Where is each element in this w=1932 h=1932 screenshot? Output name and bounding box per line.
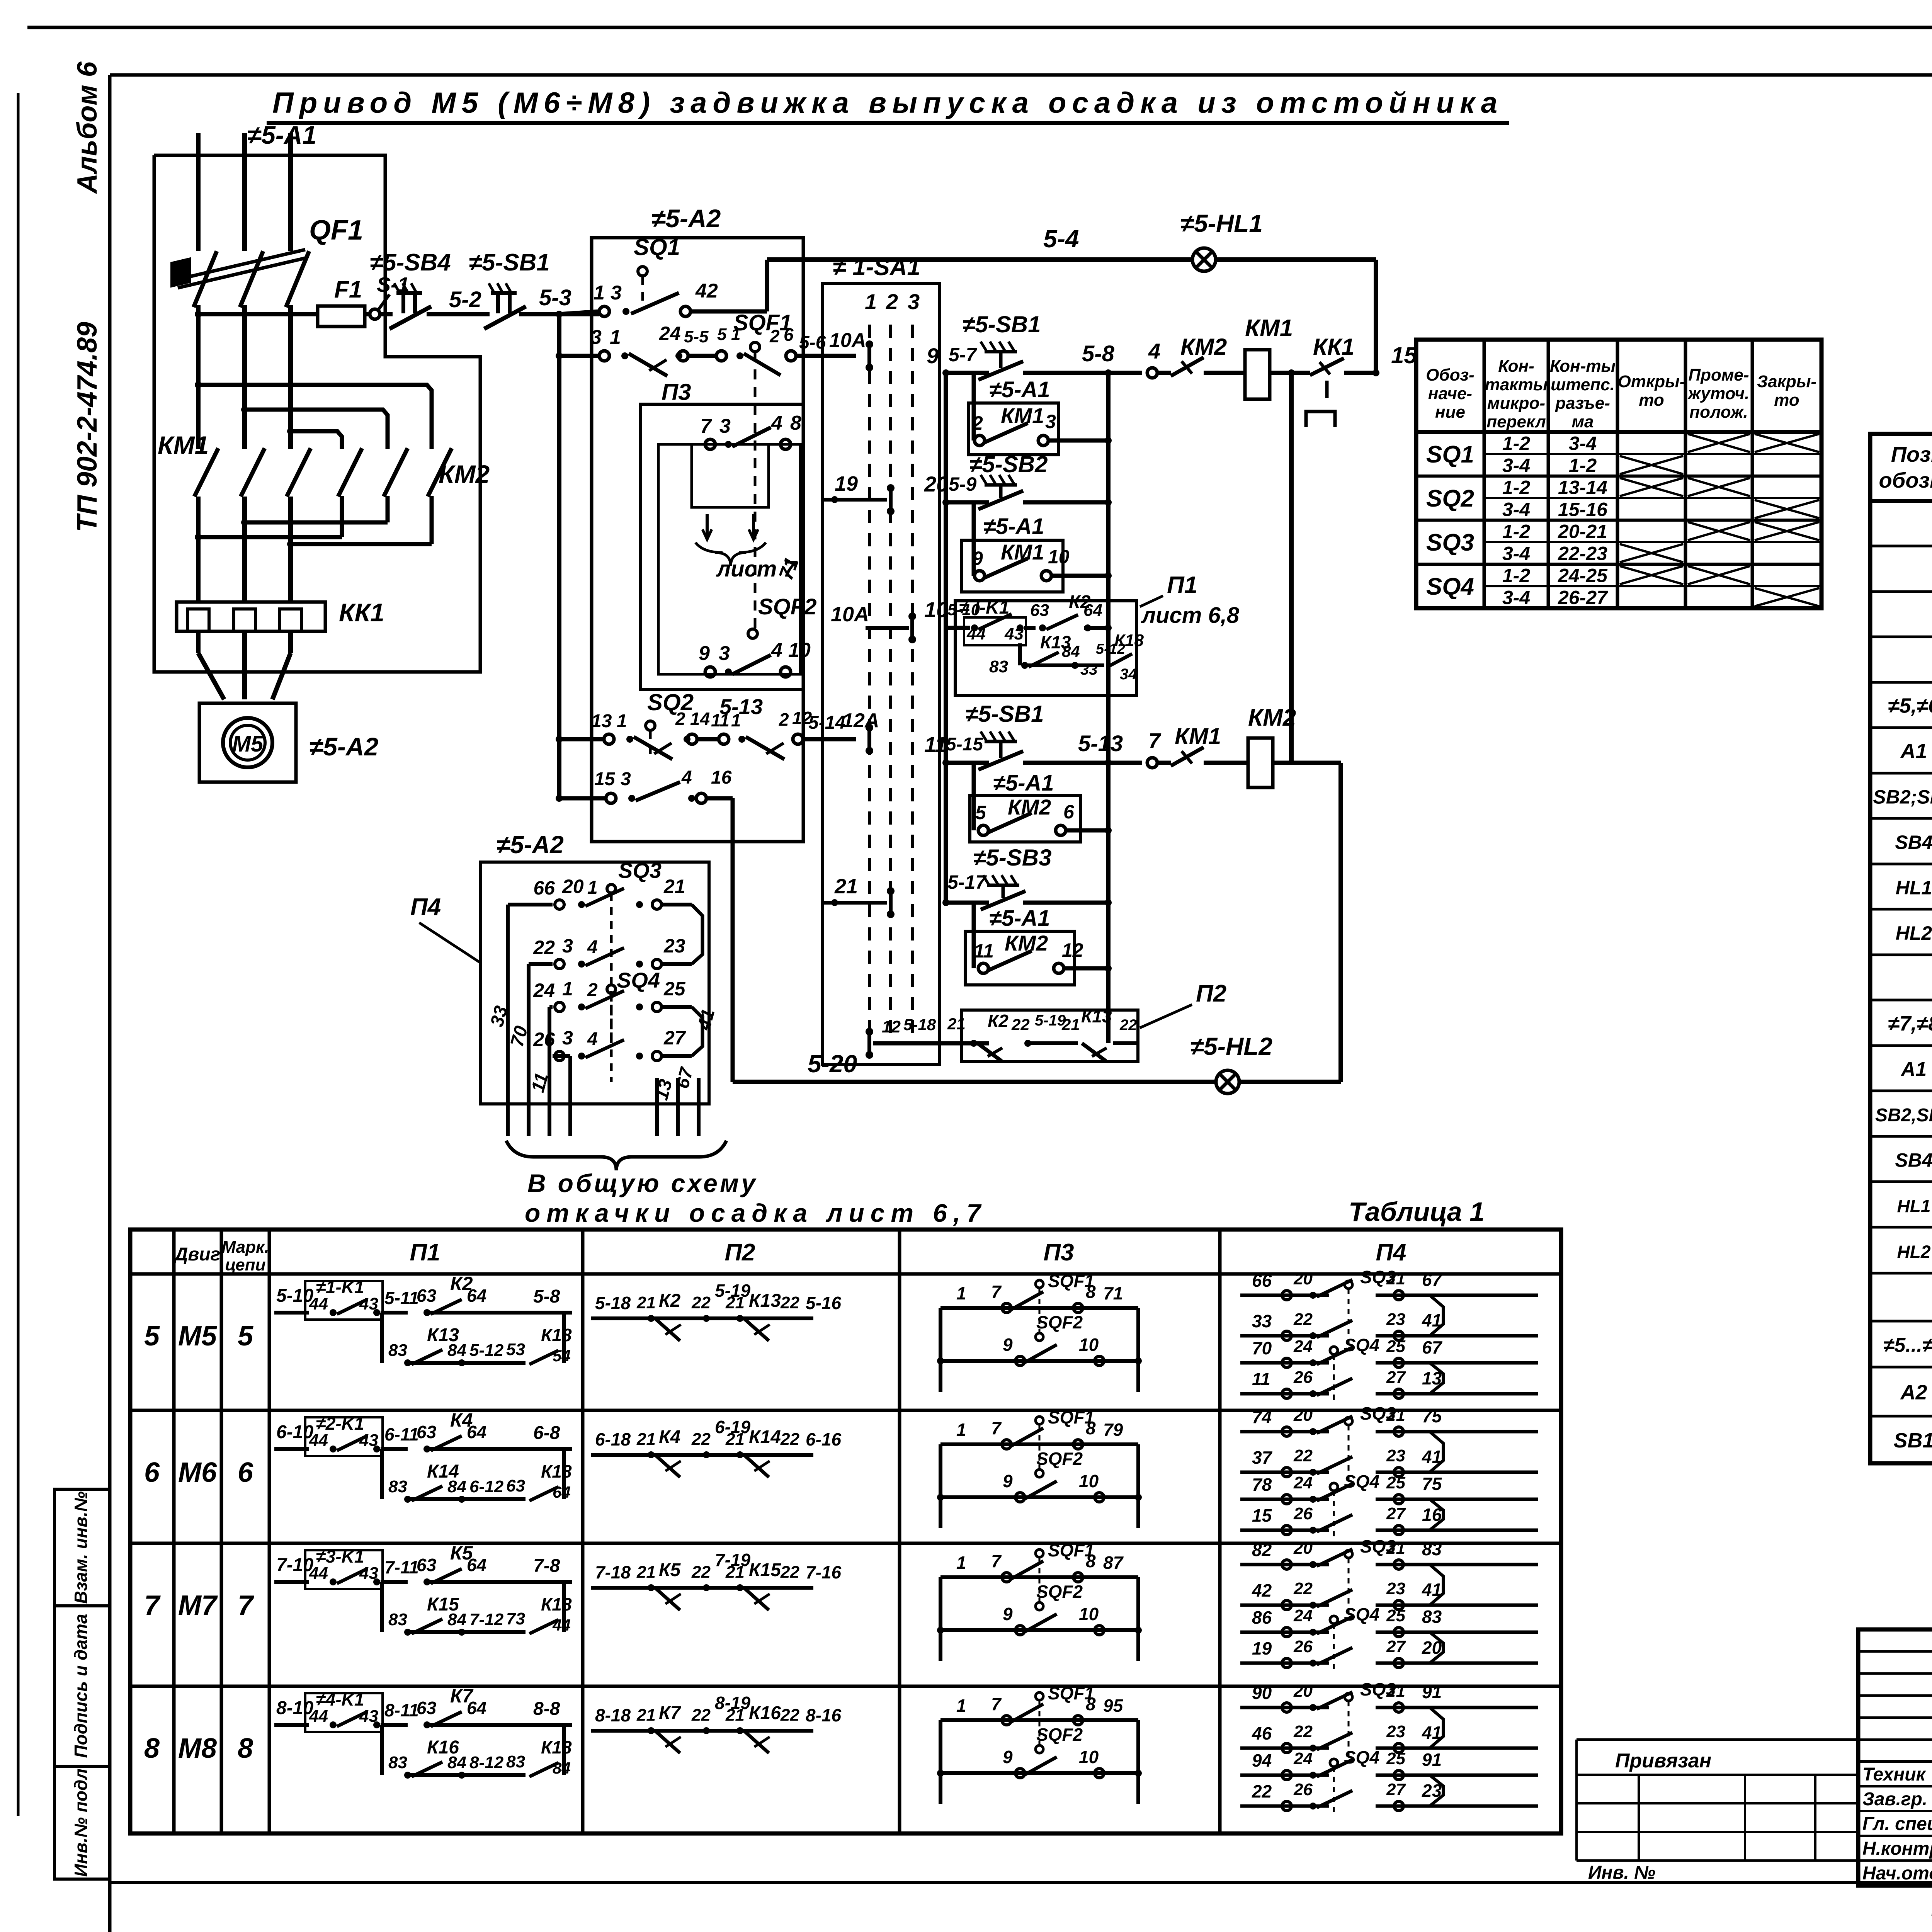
- svg-text:КМ2: КМ2: [1005, 931, 1048, 955]
- svg-text:≠5-A1: ≠5-A1: [247, 121, 316, 149]
- svg-text:20: 20: [1293, 1539, 1313, 1558]
- svg-text:74: 74: [1252, 1407, 1272, 1427]
- svg-text:12А: 12А: [842, 709, 879, 732]
- svg-text:66: 66: [1252, 1270, 1272, 1291]
- svg-text:то: то: [1774, 391, 1799, 410]
- svg-text:4: 4: [771, 412, 782, 434]
- svg-text:≠5-SB2: ≠5-SB2: [969, 451, 1048, 477]
- svg-text:33: 33: [1252, 1311, 1272, 1331]
- svg-text:83: 83: [388, 1341, 407, 1360]
- svg-text:ма: ма: [1571, 412, 1594, 431]
- svg-text:24: 24: [1293, 1606, 1313, 1625]
- svg-text:К15: К15: [749, 1560, 781, 1580]
- svg-text:Марк.: Марк.: [221, 1238, 269, 1257]
- svg-text:67: 67: [1422, 1270, 1443, 1290]
- svg-text:44: 44: [309, 1294, 328, 1313]
- svg-text:64: 64: [467, 1422, 486, 1442]
- svg-text:7-10: 7-10: [276, 1555, 313, 1575]
- svg-text:90: 90: [1252, 1683, 1272, 1703]
- svg-text:26: 26: [1293, 1780, 1313, 1799]
- svg-text:К18: К18: [541, 1594, 572, 1614]
- svg-text:Зав.гр.: Зав.гр.: [1862, 1789, 1927, 1810]
- svg-text:SB2;SB3: SB2;SB3: [1873, 786, 1932, 808]
- svg-text:22: 22: [691, 1563, 711, 1582]
- svg-text:20: 20: [1293, 1682, 1313, 1701]
- svg-text:7-18: 7-18: [595, 1562, 631, 1582]
- svg-text:П4: П4: [1376, 1239, 1406, 1266]
- svg-text:20: 20: [1293, 1406, 1313, 1425]
- svg-text:Инв. №: Инв. №: [1588, 1862, 1655, 1883]
- svg-text:6-12: 6-12: [469, 1477, 504, 1496]
- svg-text:9: 9: [699, 642, 710, 665]
- svg-text:≠5-HL1: ≠5-HL1: [1180, 209, 1263, 237]
- svg-text:54: 54: [553, 1347, 571, 1365]
- svg-text:1: 1: [956, 1283, 966, 1303]
- svg-text:Альбом 6: Альбом 6: [72, 61, 103, 194]
- svg-text:44: 44: [966, 624, 986, 643]
- svg-text:5-10: 5-10: [276, 1286, 313, 1306]
- svg-text:63: 63: [506, 1476, 525, 1495]
- svg-text:Н.контр.: Н.контр.: [1862, 1838, 1932, 1859]
- svg-text:37: 37: [1252, 1447, 1273, 1468]
- svg-text:82: 82: [1252, 1540, 1272, 1560]
- svg-text:5-4: 5-4: [1043, 225, 1079, 253]
- svg-text:SQF2: SQF2: [1036, 1449, 1083, 1469]
- svg-text:Кон-ты: Кон-ты: [1550, 357, 1616, 376]
- svg-text:лист 6,8: лист 6,8: [1141, 603, 1240, 628]
- svg-text:HL1: HL1: [1897, 1196, 1931, 1216]
- svg-text:КК1: КК1: [1313, 334, 1354, 360]
- svg-text:2: 2: [886, 289, 898, 314]
- svg-text:такты: такты: [1485, 375, 1548, 394]
- svg-text:84: 84: [447, 1753, 466, 1772]
- svg-text:3: 3: [621, 769, 631, 789]
- svg-text:микро-: микро-: [1487, 394, 1545, 413]
- svg-text:8: 8: [790, 412, 801, 434]
- svg-text:11: 11: [711, 710, 730, 730]
- svg-text:25: 25: [1386, 1473, 1405, 1492]
- svg-text:П3: П3: [1043, 1239, 1074, 1266]
- svg-text:22: 22: [1119, 1017, 1137, 1034]
- svg-text:15: 15: [1391, 342, 1417, 368]
- svg-text:44: 44: [552, 1616, 571, 1634]
- svg-text:2: 2: [769, 326, 780, 346]
- svg-text:А2: А2: [1900, 1381, 1927, 1404]
- svg-text:84: 84: [1062, 642, 1080, 660]
- svg-text:21: 21: [834, 875, 858, 898]
- svg-text:10: 10: [1079, 1335, 1099, 1355]
- svg-text:5-7: 5-7: [949, 344, 977, 366]
- svg-text:11: 11: [1252, 1369, 1270, 1389]
- svg-text:6: 6: [238, 1457, 253, 1488]
- svg-text:SB1: SB1: [1893, 1429, 1932, 1452]
- svg-text:Привязан: Привязан: [1615, 1750, 1711, 1772]
- svg-text:22: 22: [691, 1430, 711, 1449]
- svg-text:Двиг: Двиг: [173, 1244, 221, 1265]
- svg-text:86: 86: [1252, 1607, 1272, 1628]
- svg-text:Закры-: Закры-: [1757, 372, 1816, 391]
- svg-text:SQ4: SQ4: [1426, 573, 1474, 600]
- svg-text:8: 8: [1086, 1694, 1096, 1714]
- svg-text:23: 23: [1386, 1446, 1405, 1465]
- svg-text:15-16: 15-16: [1558, 499, 1608, 520]
- svg-text:12: 12: [1062, 939, 1083, 961]
- svg-text:21: 21: [725, 1563, 745, 1582]
- svg-text:КМ2: КМ2: [1180, 334, 1227, 360]
- svg-text:22: 22: [780, 1563, 799, 1582]
- svg-text:83: 83: [1422, 1539, 1442, 1559]
- svg-text:КМ2: КМ2: [1248, 704, 1296, 731]
- svg-text:≠5-SB1: ≠5-SB1: [963, 311, 1041, 337]
- svg-text:71: 71: [1103, 1283, 1123, 1303]
- svg-text:7-16: 7-16: [806, 1562, 841, 1582]
- svg-text:1: 1: [956, 1420, 966, 1440]
- svg-text:3: 3: [1045, 411, 1056, 432]
- svg-text:15: 15: [1252, 1505, 1272, 1526]
- svg-text:Откры-: Откры-: [1618, 372, 1685, 391]
- svg-text:19: 19: [1252, 1638, 1272, 1658]
- svg-text:3: 3: [562, 1027, 573, 1049]
- svg-text:22: 22: [780, 1293, 799, 1312]
- svg-text:84: 84: [447, 1341, 466, 1360]
- svg-text:5-17: 5-17: [947, 871, 987, 893]
- svg-text:20-21: 20-21: [1558, 521, 1607, 543]
- svg-text:Поз.: Поз.: [1891, 442, 1932, 466]
- svg-text:94: 94: [1252, 1750, 1272, 1770]
- svg-text:24: 24: [1293, 1749, 1313, 1768]
- svg-text:А1: А1: [1900, 740, 1927, 763]
- svg-text:9: 9: [927, 344, 939, 368]
- svg-text:87: 87: [1103, 1553, 1124, 1573]
- svg-text:SB2,SB3: SB2,SB3: [1875, 1105, 1932, 1126]
- svg-text:24: 24: [1293, 1337, 1313, 1356]
- svg-text:М6: М6: [178, 1457, 217, 1488]
- svg-text:П1: П1: [1167, 572, 1197, 599]
- svg-text:КМ1: КМ1: [1245, 315, 1293, 342]
- svg-text:5-3: 5-3: [539, 285, 571, 310]
- svg-text:1: 1: [617, 711, 627, 731]
- svg-text:22: 22: [1293, 1446, 1313, 1465]
- svg-text:5-12: 5-12: [469, 1341, 504, 1360]
- svg-text:27: 27: [1386, 1368, 1406, 1387]
- svg-text:Инв.№ подл: Инв.№ подл: [71, 1769, 91, 1877]
- svg-text:9: 9: [1003, 1471, 1013, 1491]
- svg-text:8: 8: [238, 1733, 253, 1764]
- svg-text:SQ2: SQ2: [1426, 485, 1474, 512]
- svg-text:≠5-HL2: ≠5-HL2: [1190, 1032, 1272, 1060]
- svg-text:22: 22: [780, 1430, 799, 1449]
- svg-text:3: 3: [562, 935, 573, 957]
- svg-text:84: 84: [447, 1610, 466, 1629]
- svg-text:≠5-A1: ≠5-A1: [989, 377, 1050, 402]
- svg-text:3-4: 3-4: [1502, 499, 1530, 520]
- svg-text:К14: К14: [749, 1427, 781, 1447]
- svg-text:SQ3: SQ3: [618, 858, 662, 883]
- svg-text:22: 22: [691, 1706, 711, 1725]
- svg-text:9: 9: [1003, 1604, 1013, 1624]
- svg-text:1: 1: [562, 978, 573, 1000]
- svg-text:цепи: цепи: [225, 1255, 266, 1274]
- svg-text:3-4: 3-4: [1502, 587, 1530, 609]
- svg-text:20: 20: [562, 876, 584, 897]
- svg-text:63: 63: [417, 1698, 437, 1718]
- svg-text:13: 13: [591, 711, 612, 731]
- svg-text:ние: ние: [1435, 403, 1465, 422]
- svg-text:95: 95: [1103, 1696, 1124, 1716]
- svg-text:SQF2: SQF2: [1036, 1582, 1083, 1602]
- svg-text:84: 84: [553, 1759, 571, 1777]
- svg-text:6-11: 6-11: [384, 1424, 419, 1444]
- svg-text:10: 10: [1079, 1747, 1099, 1767]
- svg-text:полож.: полож.: [1689, 403, 1748, 422]
- svg-text:63: 63: [1030, 601, 1049, 620]
- svg-text:SB4: SB4: [1895, 832, 1932, 853]
- svg-text:19: 19: [835, 472, 858, 495]
- svg-text:20: 20: [924, 472, 948, 496]
- svg-text:75: 75: [1422, 1406, 1442, 1426]
- svg-text:21: 21: [947, 1015, 966, 1033]
- svg-text:25: 25: [1386, 1749, 1405, 1768]
- svg-text:5: 5: [975, 802, 986, 823]
- svg-text:ТП 902-2-474.89: ТП 902-2-474.89: [72, 322, 103, 532]
- svg-text:21: 21: [725, 1430, 745, 1449]
- svg-text:83: 83: [506, 1752, 525, 1771]
- svg-text:7: 7: [991, 1694, 1002, 1714]
- svg-text:9: 9: [1003, 1335, 1013, 1355]
- svg-text:83: 83: [388, 1610, 407, 1629]
- svg-text:43: 43: [1004, 624, 1024, 643]
- svg-text:жуточ.: жуточ.: [1687, 384, 1750, 403]
- svg-text:8-12: 8-12: [469, 1753, 504, 1772]
- svg-text:25: 25: [663, 978, 686, 1000]
- svg-text:26: 26: [533, 1029, 555, 1050]
- svg-text:27: 27: [1386, 1780, 1406, 1799]
- svg-text:64: 64: [467, 1698, 486, 1718]
- svg-text:22: 22: [1011, 1015, 1030, 1034]
- svg-text:К13: К13: [1081, 1006, 1112, 1026]
- svg-text:25: 25: [1386, 1337, 1405, 1356]
- svg-text:8-18: 8-18: [595, 1705, 631, 1725]
- svg-text:5-8: 5-8: [533, 1286, 560, 1307]
- svg-text:3: 3: [908, 289, 920, 314]
- svg-text:К18: К18: [1114, 631, 1144, 650]
- svg-text:К18: К18: [541, 1461, 572, 1481]
- svg-text:53: 53: [506, 1340, 525, 1359]
- svg-text:Техник: Техник: [1862, 1764, 1927, 1785]
- svg-text:15: 15: [594, 769, 616, 789]
- svg-text:7: 7: [700, 415, 712, 437]
- svg-text:6-18: 6-18: [595, 1429, 631, 1449]
- svg-text:26-27: 26-27: [1558, 587, 1608, 609]
- svg-text:SQ4: SQ4: [1344, 1747, 1379, 1767]
- svg-text:8: 8: [1086, 1282, 1096, 1302]
- svg-text:27: 27: [1386, 1504, 1406, 1523]
- svg-text:75: 75: [1422, 1474, 1442, 1494]
- svg-text:7-11: 7-11: [384, 1557, 419, 1577]
- svg-text:5-16: 5-16: [806, 1293, 841, 1313]
- svg-text:1: 1: [956, 1696, 966, 1716]
- svg-text:М5: М5: [232, 731, 264, 757]
- svg-text:9: 9: [1003, 1747, 1013, 1767]
- svg-text:21: 21: [1061, 1015, 1080, 1034]
- svg-text:16: 16: [711, 767, 732, 788]
- svg-text:М7: М7: [178, 1590, 218, 1621]
- svg-text:1-2: 1-2: [1569, 455, 1597, 476]
- svg-text:21: 21: [636, 1430, 656, 1449]
- svg-text:79: 79: [1103, 1420, 1123, 1440]
- svg-text:14: 14: [690, 709, 710, 729]
- svg-text:≠5-A1: ≠5-A1: [983, 514, 1044, 539]
- svg-text:≠5-SB4: ≠5-SB4: [370, 249, 451, 276]
- svg-text:26: 26: [1293, 1504, 1313, 1523]
- svg-text:46: 46: [1252, 1723, 1272, 1743]
- svg-text:22: 22: [1293, 1722, 1313, 1741]
- svg-text:83: 83: [388, 1477, 407, 1496]
- svg-text:наче-: наче-: [1428, 384, 1472, 403]
- svg-text:HL1: HL1: [1896, 877, 1932, 899]
- svg-text:Нач.отд.: Нач.отд.: [1862, 1863, 1932, 1884]
- svg-text:26: 26: [1293, 1637, 1313, 1656]
- svg-text:91: 91: [1422, 1750, 1442, 1770]
- svg-text:SB4: SB4: [1895, 1150, 1932, 1171]
- svg-text:Взам. инв.№: Взам. инв.№: [71, 1491, 91, 1604]
- svg-text:2: 2: [972, 412, 983, 434]
- svg-text:66: 66: [533, 877, 555, 899]
- svg-text:64: 64: [467, 1555, 486, 1575]
- svg-text:21: 21: [663, 876, 685, 897]
- svg-text:7: 7: [991, 1282, 1002, 1302]
- svg-text:5-11: 5-11: [384, 1288, 419, 1308]
- svg-text:26: 26: [1293, 1368, 1313, 1387]
- svg-text:≠5-SB1: ≠5-SB1: [966, 701, 1044, 727]
- svg-text:8-11: 8-11: [384, 1700, 419, 1720]
- svg-text:К13: К13: [749, 1291, 781, 1311]
- svg-text:4: 4: [771, 639, 782, 662]
- svg-text:2: 2: [779, 709, 789, 730]
- svg-text:4: 4: [1148, 339, 1160, 363]
- svg-text:24: 24: [1293, 1473, 1313, 1492]
- svg-text:≠5-SB1: ≠5-SB1: [469, 249, 550, 276]
- svg-text:1: 1: [956, 1553, 966, 1573]
- svg-text:SQ4: SQ4: [1344, 1471, 1379, 1492]
- svg-text:SQ4: SQ4: [1344, 1335, 1379, 1355]
- svg-text:27: 27: [663, 1027, 686, 1049]
- svg-text:83: 83: [1422, 1607, 1442, 1627]
- svg-text:SQ1: SQ1: [1426, 441, 1474, 468]
- svg-text:1: 1: [731, 710, 741, 730]
- svg-text:6: 6: [1063, 801, 1075, 823]
- svg-text:8: 8: [1086, 1418, 1096, 1438]
- svg-text:6: 6: [784, 325, 794, 345]
- svg-text:27: 27: [1386, 1637, 1406, 1656]
- svg-text:≠5-A1: ≠5-A1: [993, 770, 1054, 796]
- svg-text:8-10: 8-10: [276, 1698, 313, 1718]
- svg-text:8-16: 8-16: [806, 1705, 841, 1725]
- svg-text:разъе-: разъе-: [1555, 394, 1610, 413]
- svg-text:1: 1: [594, 282, 605, 304]
- svg-text:КМ1: КМ1: [1175, 723, 1221, 749]
- svg-text:Обоз-: Обоз-: [1426, 366, 1474, 384]
- svg-text:6: 6: [144, 1457, 160, 1488]
- svg-text:9: 9: [972, 548, 983, 569]
- svg-text:78: 78: [1252, 1475, 1272, 1495]
- svg-text:64: 64: [553, 1483, 571, 1501]
- svg-text:F1: F1: [334, 276, 362, 303]
- svg-text:4: 4: [587, 1029, 598, 1049]
- svg-text:10: 10: [924, 597, 948, 622]
- svg-text:42: 42: [695, 280, 718, 302]
- svg-text:5-19: 5-19: [1035, 1012, 1066, 1029]
- svg-text:3-4: 3-4: [1502, 543, 1530, 565]
- svg-text:10: 10: [1079, 1604, 1099, 1624]
- svg-text:24: 24: [533, 980, 555, 1001]
- svg-text:П2: П2: [1196, 980, 1226, 1007]
- svg-text:22-23: 22-23: [1558, 543, 1607, 565]
- svg-text:23: 23: [663, 935, 685, 957]
- svg-text:8: 8: [1086, 1551, 1096, 1571]
- svg-text:≠5...≠8: ≠5...≠8: [1883, 1334, 1932, 1357]
- svg-text:SQF2: SQF2: [1036, 1725, 1083, 1745]
- svg-text:21: 21: [636, 1563, 656, 1582]
- svg-text:44: 44: [309, 1707, 328, 1726]
- svg-text:КМ1: КМ1: [158, 431, 209, 459]
- svg-text:HL2: HL2: [1896, 922, 1932, 944]
- svg-text:1-2: 1-2: [1502, 477, 1530, 498]
- svg-text:SQF2: SQF2: [758, 594, 817, 619]
- svg-text:обозн.: обозн.: [1879, 468, 1932, 492]
- svg-text:6-10: 6-10: [276, 1422, 313, 1442]
- svg-text:22: 22: [691, 1293, 711, 1312]
- svg-text:К2: К2: [988, 1011, 1009, 1031]
- svg-text:2: 2: [587, 980, 598, 1000]
- svg-text:10: 10: [788, 639, 811, 662]
- svg-text:QF1: QF1: [309, 215, 363, 246]
- svg-text:21: 21: [1386, 1682, 1405, 1701]
- svg-text:КК1: КК1: [339, 598, 384, 627]
- svg-text:13-14: 13-14: [1558, 477, 1607, 498]
- svg-text:5-13: 5-13: [1078, 731, 1123, 756]
- svg-text:2: 2: [675, 709, 685, 729]
- svg-text:К5: К5: [659, 1560, 681, 1580]
- svg-text:22: 22: [780, 1706, 799, 1725]
- svg-text:23: 23: [1386, 1310, 1405, 1329]
- svg-text:Проме-: Проме-: [1688, 366, 1749, 384]
- svg-text:1-2: 1-2: [1502, 521, 1530, 543]
- svg-text:83: 83: [388, 1753, 407, 1772]
- svg-text:21: 21: [1386, 1539, 1405, 1558]
- svg-text:П2: П2: [724, 1239, 755, 1266]
- svg-text:5: 5: [717, 325, 727, 344]
- svg-text:34: 34: [1120, 666, 1137, 683]
- svg-text:Таблица 1: Таблица 1: [1349, 1197, 1485, 1227]
- svg-text:8: 8: [144, 1733, 160, 1764]
- svg-text:22: 22: [1293, 1310, 1313, 1329]
- svg-text:63: 63: [417, 1286, 437, 1306]
- svg-text:44: 44: [309, 1431, 328, 1450]
- svg-text:К16: К16: [749, 1703, 781, 1723]
- svg-text:70: 70: [1252, 1338, 1272, 1358]
- svg-text:≠7,≠8: ≠7,≠8: [1888, 1012, 1932, 1035]
- svg-text:91: 91: [1422, 1682, 1442, 1702]
- svg-text:1-2: 1-2: [1502, 433, 1530, 454]
- svg-text:К4: К4: [659, 1427, 680, 1447]
- svg-text:5-18: 5-18: [595, 1293, 631, 1313]
- svg-text:8-8: 8-8: [533, 1699, 560, 1719]
- svg-text:42: 42: [1252, 1580, 1272, 1600]
- svg-text:7-12: 7-12: [469, 1610, 504, 1629]
- svg-text:11: 11: [974, 940, 994, 962]
- svg-text:73: 73: [506, 1609, 525, 1628]
